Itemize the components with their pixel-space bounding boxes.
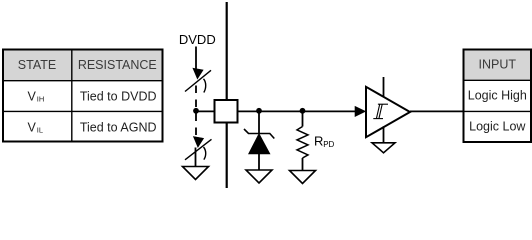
ESD diode D1 to DVDD bbox=[185, 68, 211, 92]
svg-text:IH: IH bbox=[37, 95, 45, 104]
resistor RPD bbox=[297, 127, 308, 159]
svg-text:PD: PD bbox=[323, 140, 334, 149]
ground symbol below zener bbox=[246, 170, 272, 183]
ESD diode D2 to ground bbox=[185, 137, 212, 160]
svg-text:Tied to AGND: Tied to AGND bbox=[80, 120, 157, 134]
svg-text:V: V bbox=[28, 120, 37, 134]
net label DVDD bbox=[179, 32, 216, 47]
svg-text:V: V bbox=[28, 89, 37, 103]
svg-text:IL: IL bbox=[37, 126, 43, 135]
left table cell Tied to DVDD bbox=[80, 89, 157, 103]
svg-text:Logic High: Logic High bbox=[468, 89, 527, 103]
chip boundary vertical line bbox=[226, 2, 228, 188]
left table header STATE bbox=[18, 58, 56, 72]
input arrowhead bbox=[355, 106, 366, 116]
schmitt power line bbox=[383, 77, 385, 97]
right table cell Logic High bbox=[468, 89, 527, 103]
right table frame bbox=[464, 50, 532, 143]
svg-text:Tied to DVDD: Tied to DVDD bbox=[80, 89, 157, 103]
right table cell Logic Low bbox=[469, 120, 526, 134]
junction node zener branch bbox=[256, 108, 262, 114]
wire pad to schmitt input bbox=[238, 110, 356, 112]
svg-text:Logic Low: Logic Low bbox=[469, 120, 526, 134]
ground symbol below RPD bbox=[290, 171, 316, 184]
wire RPD to ground bbox=[302, 158, 304, 171]
wire junction to zener bbox=[258, 111, 260, 134]
left table cell VIH bbox=[28, 89, 45, 103]
svg-text:RESISTANCE: RESISTANCE bbox=[78, 58, 157, 72]
left table frame bbox=[3, 50, 163, 142]
label RPD bbox=[314, 133, 335, 149]
zener clamp diode body bbox=[249, 134, 271, 155]
wire junction to RPD bbox=[302, 111, 304, 127]
svg-text:R: R bbox=[314, 133, 323, 148]
wire zener to ground bbox=[258, 154, 260, 170]
wire D2 to ground bbox=[195, 148, 197, 167]
svg-text:DVDD: DVDD bbox=[179, 32, 216, 47]
wire schmitt to ground bbox=[383, 126, 385, 143]
junction node RPD branch bbox=[300, 108, 306, 114]
ground symbol below schmitt bbox=[372, 143, 395, 153]
right table header INPUT bbox=[479, 58, 517, 72]
schmitt hysteresis symbol bbox=[373, 104, 388, 118]
pad box bbox=[215, 100, 238, 123]
schmitt trigger buffer body bbox=[366, 87, 410, 137]
dashed wire internal rail bbox=[195, 81, 197, 137]
zener clamp diode cathode bar bbox=[244, 129, 274, 139]
wire DVDD to D1 bbox=[195, 47, 197, 69]
svg-text:INPUT: INPUT bbox=[479, 58, 517, 72]
junction node at pad left bbox=[193, 108, 199, 114]
left table cell VIL bbox=[28, 120, 44, 134]
left table cell Tied to AGND bbox=[80, 120, 157, 134]
ground symbol below D2 bbox=[183, 167, 209, 180]
wire junction to pad bbox=[196, 110, 215, 112]
svg-text:STATE: STATE bbox=[18, 58, 56, 72]
left table header RESISTANCE bbox=[78, 58, 157, 72]
wire schmitt output to table bbox=[410, 110, 464, 112]
